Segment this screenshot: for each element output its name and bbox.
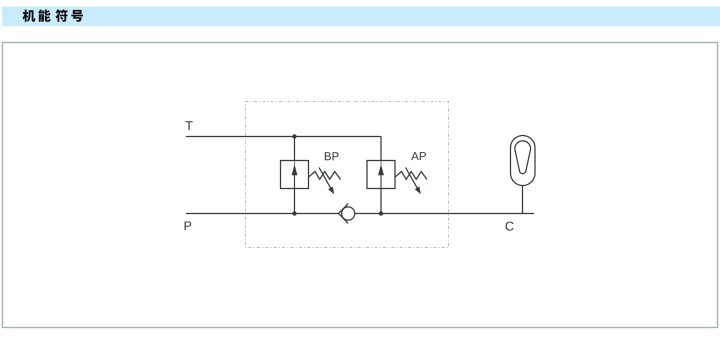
accumulator shell [511,136,536,186]
label AP [411,152,426,160]
accumulator bladder [515,141,531,174]
wire AP branch lower [380,189,382,214]
valve BP body [281,161,309,189]
label T [186,121,193,130]
wire T line [186,136,381,138]
spring BP adjust arrowhead [328,187,334,195]
valve AP internal arrow [380,175,381,189]
label C [506,222,514,231]
header bar [2,7,720,27]
junction dot P-AP [379,211,383,215]
spring AP [395,172,427,180]
check valve ball [342,207,355,220]
valve AP body [367,161,395,189]
check valve seat [339,204,349,224]
junction dot T-BP [292,134,296,138]
wire BP branch upper [294,137,296,161]
spring AP adjust arrowhead [415,187,421,195]
label P [185,221,192,230]
spring AP adjust arrow shaft [406,168,418,189]
dashed enclosure box [246,102,449,248]
valve AP internal passage line [380,161,382,165]
wire BP branch lower [294,189,296,214]
wire P line left [186,213,339,215]
wire P line right [355,213,534,215]
label BP [325,152,339,160]
header title 机能符号 (drawn as glyph paths) [23,9,83,21]
spring BP [309,172,341,180]
valve BP internal arrow [294,175,295,189]
junction dot P-BP [292,211,296,215]
accumulator stem wire [522,186,524,214]
wire AP branch upper [380,137,382,161]
spring BP adjust arrow shaft [319,168,331,189]
valve BP internal passage line [294,161,296,165]
